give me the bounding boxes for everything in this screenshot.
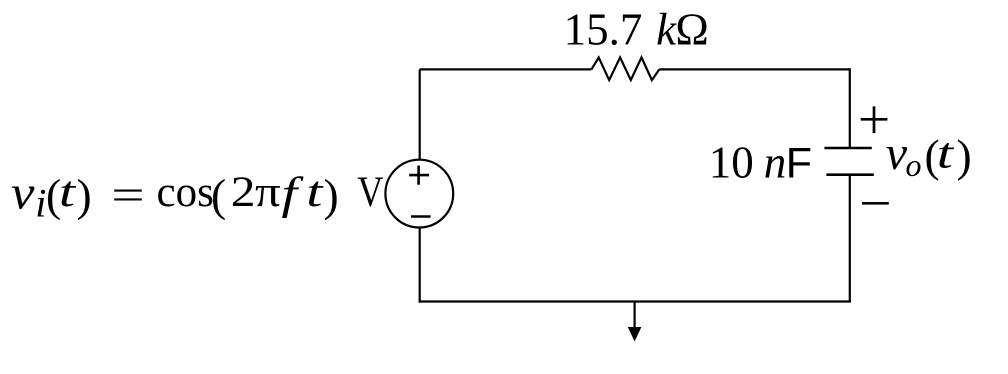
wire top right segment [659,68,850,70]
svg-text:10: 10 [709,137,754,187]
wire left upper [419,69,421,159]
svg-text:15.7: 15.7 [564,5,643,55]
wire left lower [419,227,421,302]
wire right lower [849,175,851,302]
ground arrow stem [633,302,635,329]
resistor R1 zigzag [591,57,659,80]
svg-text:): ) [957,130,972,181]
resistor value label 15.7 kOhm [564,5,709,55]
capacitor C1 bottom plate [826,173,873,176]
svg-text:k: k [656,5,677,55]
svg-text:=: = [111,172,144,219]
source label v_i(t) = cos(2 pi f t) V [11,166,384,226]
capacitor C1 top plate [824,147,871,150]
wire bottom [419,300,851,302]
svg-text:t: t [59,168,77,216]
wire top left segment [420,68,592,70]
capacitor minus sign [862,202,889,205]
svg-text:o: o [906,147,922,183]
capacitor plus sign [861,106,888,133]
voltage source V1 circle [385,160,453,228]
source minus sign [411,215,431,218]
output voltage label v_o(t) [886,127,972,183]
svg-text:t: t [937,130,955,178]
svg-text:v: v [11,166,35,219]
svg-text:(: ( [211,170,226,221]
svg-text:): ) [324,170,339,221]
wire right upper [849,68,851,148]
svg-text:F: F [786,139,812,187]
svg-text:π: π [255,169,281,217]
svg-text:2: 2 [231,169,256,216]
svg-text:i: i [35,181,46,226]
svg-text:t: t [306,168,324,216]
svg-text:n: n [764,137,787,187]
ground arrow head [628,327,642,342]
svg-text:f: f [282,168,305,219]
svg-text:V: V [357,168,383,216]
capacitor value label 10 nF [709,137,812,187]
svg-text:): ) [77,170,92,221]
svg-text:v: v [886,127,908,180]
svg-text:Ω: Ω [675,5,708,55]
svg-text:cos: cos [157,169,214,216]
source plus sign [409,166,429,185]
